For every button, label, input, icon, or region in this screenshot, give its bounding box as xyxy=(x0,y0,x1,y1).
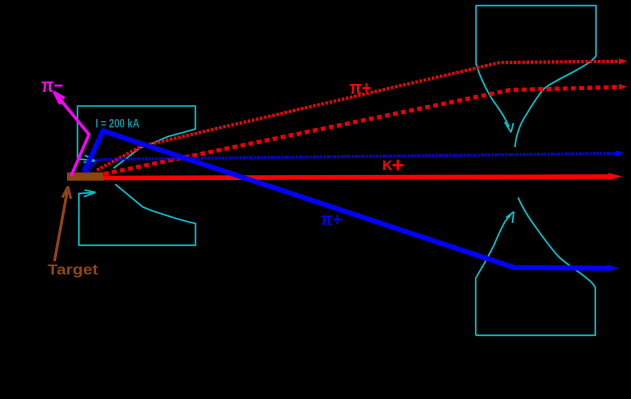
svg-text:π+: π+ xyxy=(321,209,343,230)
svg-text:+: + xyxy=(392,154,404,177)
svg-text:π−: π− xyxy=(41,76,63,97)
svg-text:π+: π+ xyxy=(350,77,372,98)
svg-text:I = 200 kA: I = 200 kA xyxy=(96,116,140,130)
svg-text:Target: Target xyxy=(48,262,99,279)
